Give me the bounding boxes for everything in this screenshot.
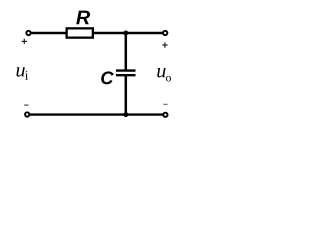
wire top-right horizontal [94,32,163,34]
terminal top-left [26,31,30,35]
node label u_o : subscript o [166,76,171,82]
capacitor C1 top plate [116,69,136,71]
minus sign bottom-right [163,103,167,105]
node junction bottom [123,112,128,117]
terminal bottom-right [163,113,167,117]
wire bottom horizontal [30,113,163,115]
node junction top [123,31,128,36]
terminal bottom-left [25,112,29,116]
capacitor label C [101,71,113,84]
wire top-left horizontal [31,32,66,34]
node label u_i : subscript i [25,71,28,80]
minus sign bottom-left [24,104,28,106]
plus sign top-right [162,42,167,47]
terminal top-right [163,31,167,35]
resistor label R [76,11,90,25]
wire capacitor vertical lower [125,75,128,114]
plus sign top-left [22,39,27,44]
capacitor C1 bottom plate [116,74,136,76]
resistor R1 body [67,28,93,37]
node label u_i : u [16,67,24,76]
node label u_o : u [157,68,165,77]
wire capacitor vertical upper [125,33,128,71]
